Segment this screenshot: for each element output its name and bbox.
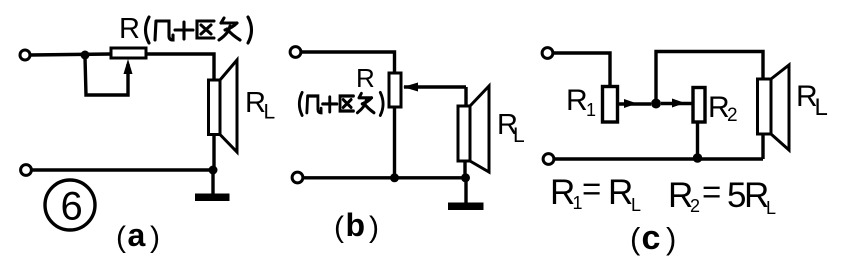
svg-text:1: 1 xyxy=(586,100,596,120)
wire (b) speaker to rail xyxy=(463,161,466,178)
svg-text:L: L xyxy=(513,124,525,147)
speaker RL (a) cone xyxy=(220,60,237,152)
speaker RL (c) driver xyxy=(758,79,772,134)
svg-text:=: = xyxy=(582,170,601,207)
svg-text:=: = xyxy=(702,173,721,210)
wire (a) wiper loop xyxy=(85,57,128,95)
ground (b) bar xyxy=(448,203,484,211)
speaker RL (b) driver xyxy=(458,106,470,161)
node (a) junction xyxy=(81,51,90,60)
svg-text:(: ( xyxy=(334,211,344,244)
wiper arrow (a) xyxy=(124,59,133,74)
svg-text:R: R xyxy=(550,173,575,212)
label (几十欧) (a) xyxy=(146,17,252,43)
svg-text:L: L xyxy=(766,198,776,218)
svg-text:L: L xyxy=(631,195,641,215)
wire (c) bottom rail xyxy=(554,157,763,160)
wire (a) resistor to speaker xyxy=(146,54,214,80)
svg-text:c: c xyxy=(642,219,661,257)
terminal (b) bottom input xyxy=(292,172,303,183)
label (几十欧) (b) xyxy=(299,93,383,116)
resistor R (b) body xyxy=(389,73,401,107)
svg-text:): ) xyxy=(150,221,160,254)
wire (b) resistor bottom xyxy=(393,107,396,178)
svg-text:R: R xyxy=(119,13,140,45)
svg-text:6: 6 xyxy=(61,185,83,229)
svg-text:1: 1 xyxy=(573,193,583,213)
resistor R2 body xyxy=(693,88,705,123)
node (a) bottom junction xyxy=(209,166,218,175)
wire (b) wiper xyxy=(404,85,466,88)
svg-text:2: 2 xyxy=(690,196,700,216)
svg-text:2: 2 xyxy=(727,105,738,126)
wire (b) wiper to speaker xyxy=(464,87,467,106)
node (c) R2 junction xyxy=(693,153,703,163)
wiper arrow (c) right xyxy=(672,99,685,108)
speaker RL (c) cone xyxy=(771,65,789,150)
wire (b) bottom rail xyxy=(303,176,467,179)
wire (c) R1 wiper to node xyxy=(618,102,652,105)
wire (a) top rail xyxy=(30,54,111,55)
node (b) resistor junction xyxy=(390,173,399,182)
wire (c) node up and over to speaker xyxy=(656,52,763,104)
node (c) wiper junction xyxy=(651,99,661,109)
speaker RL (b) cone xyxy=(470,86,489,172)
terminal (c) top input xyxy=(542,48,553,59)
ground (a) bar xyxy=(195,194,230,202)
terminal (b) top input xyxy=(290,47,301,58)
ground (b) stem xyxy=(464,178,467,204)
wiper arrow (c) left xyxy=(624,99,637,108)
svg-text:(: ( xyxy=(116,221,126,254)
wire (a) speaker to bottom rail xyxy=(212,135,215,171)
svg-text:a: a xyxy=(128,217,146,253)
resistor R (a) body xyxy=(111,48,146,58)
terminal (a) top input xyxy=(20,50,30,60)
svg-text:(: ( xyxy=(630,221,641,256)
terminal (a) bottom input xyxy=(21,165,32,176)
svg-text:R: R xyxy=(566,84,588,117)
svg-text:): ) xyxy=(369,211,379,244)
wire (c) R2 bottom to rail xyxy=(696,122,699,159)
wire (b) top rail xyxy=(301,52,395,73)
svg-text:): ) xyxy=(666,221,676,256)
svg-text:b: b xyxy=(346,207,366,243)
svg-text:L: L xyxy=(264,101,276,124)
wire (c) node to R2 xyxy=(661,102,693,105)
ground (a) stem xyxy=(211,170,214,196)
svg-text:R: R xyxy=(608,173,633,212)
wiper arrow (b) xyxy=(403,83,418,92)
wire (c) top input to R1 xyxy=(553,53,610,87)
svg-text:L: L xyxy=(815,94,828,121)
wire (c) speaker to bottom rail xyxy=(761,134,764,159)
speaker RL (a) driver xyxy=(209,80,221,135)
terminal (c) bottom input xyxy=(543,154,554,165)
svg-text:R: R xyxy=(356,63,375,93)
wire (a) bottom rail xyxy=(31,168,213,171)
resistor R1 body xyxy=(603,87,618,123)
node (b) speaker junction xyxy=(461,173,470,182)
figure number 6 circle xyxy=(45,180,95,230)
